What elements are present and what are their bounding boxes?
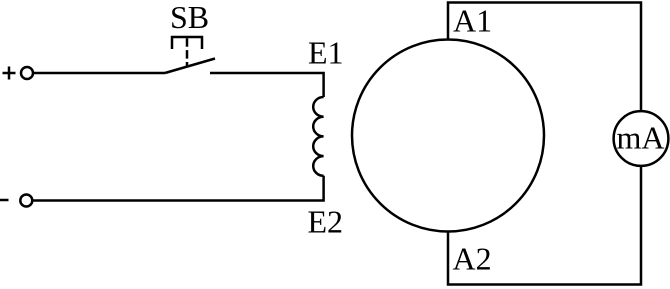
svg-text:E2: E2 [308, 204, 344, 240]
svg-text:A1: A1 [453, 3, 492, 39]
svg-text:mA: mA [617, 119, 665, 155]
svg-text:SB: SB [170, 0, 209, 35]
svg-text:E1: E1 [308, 35, 344, 71]
svg-text:A2: A2 [453, 241, 492, 277]
